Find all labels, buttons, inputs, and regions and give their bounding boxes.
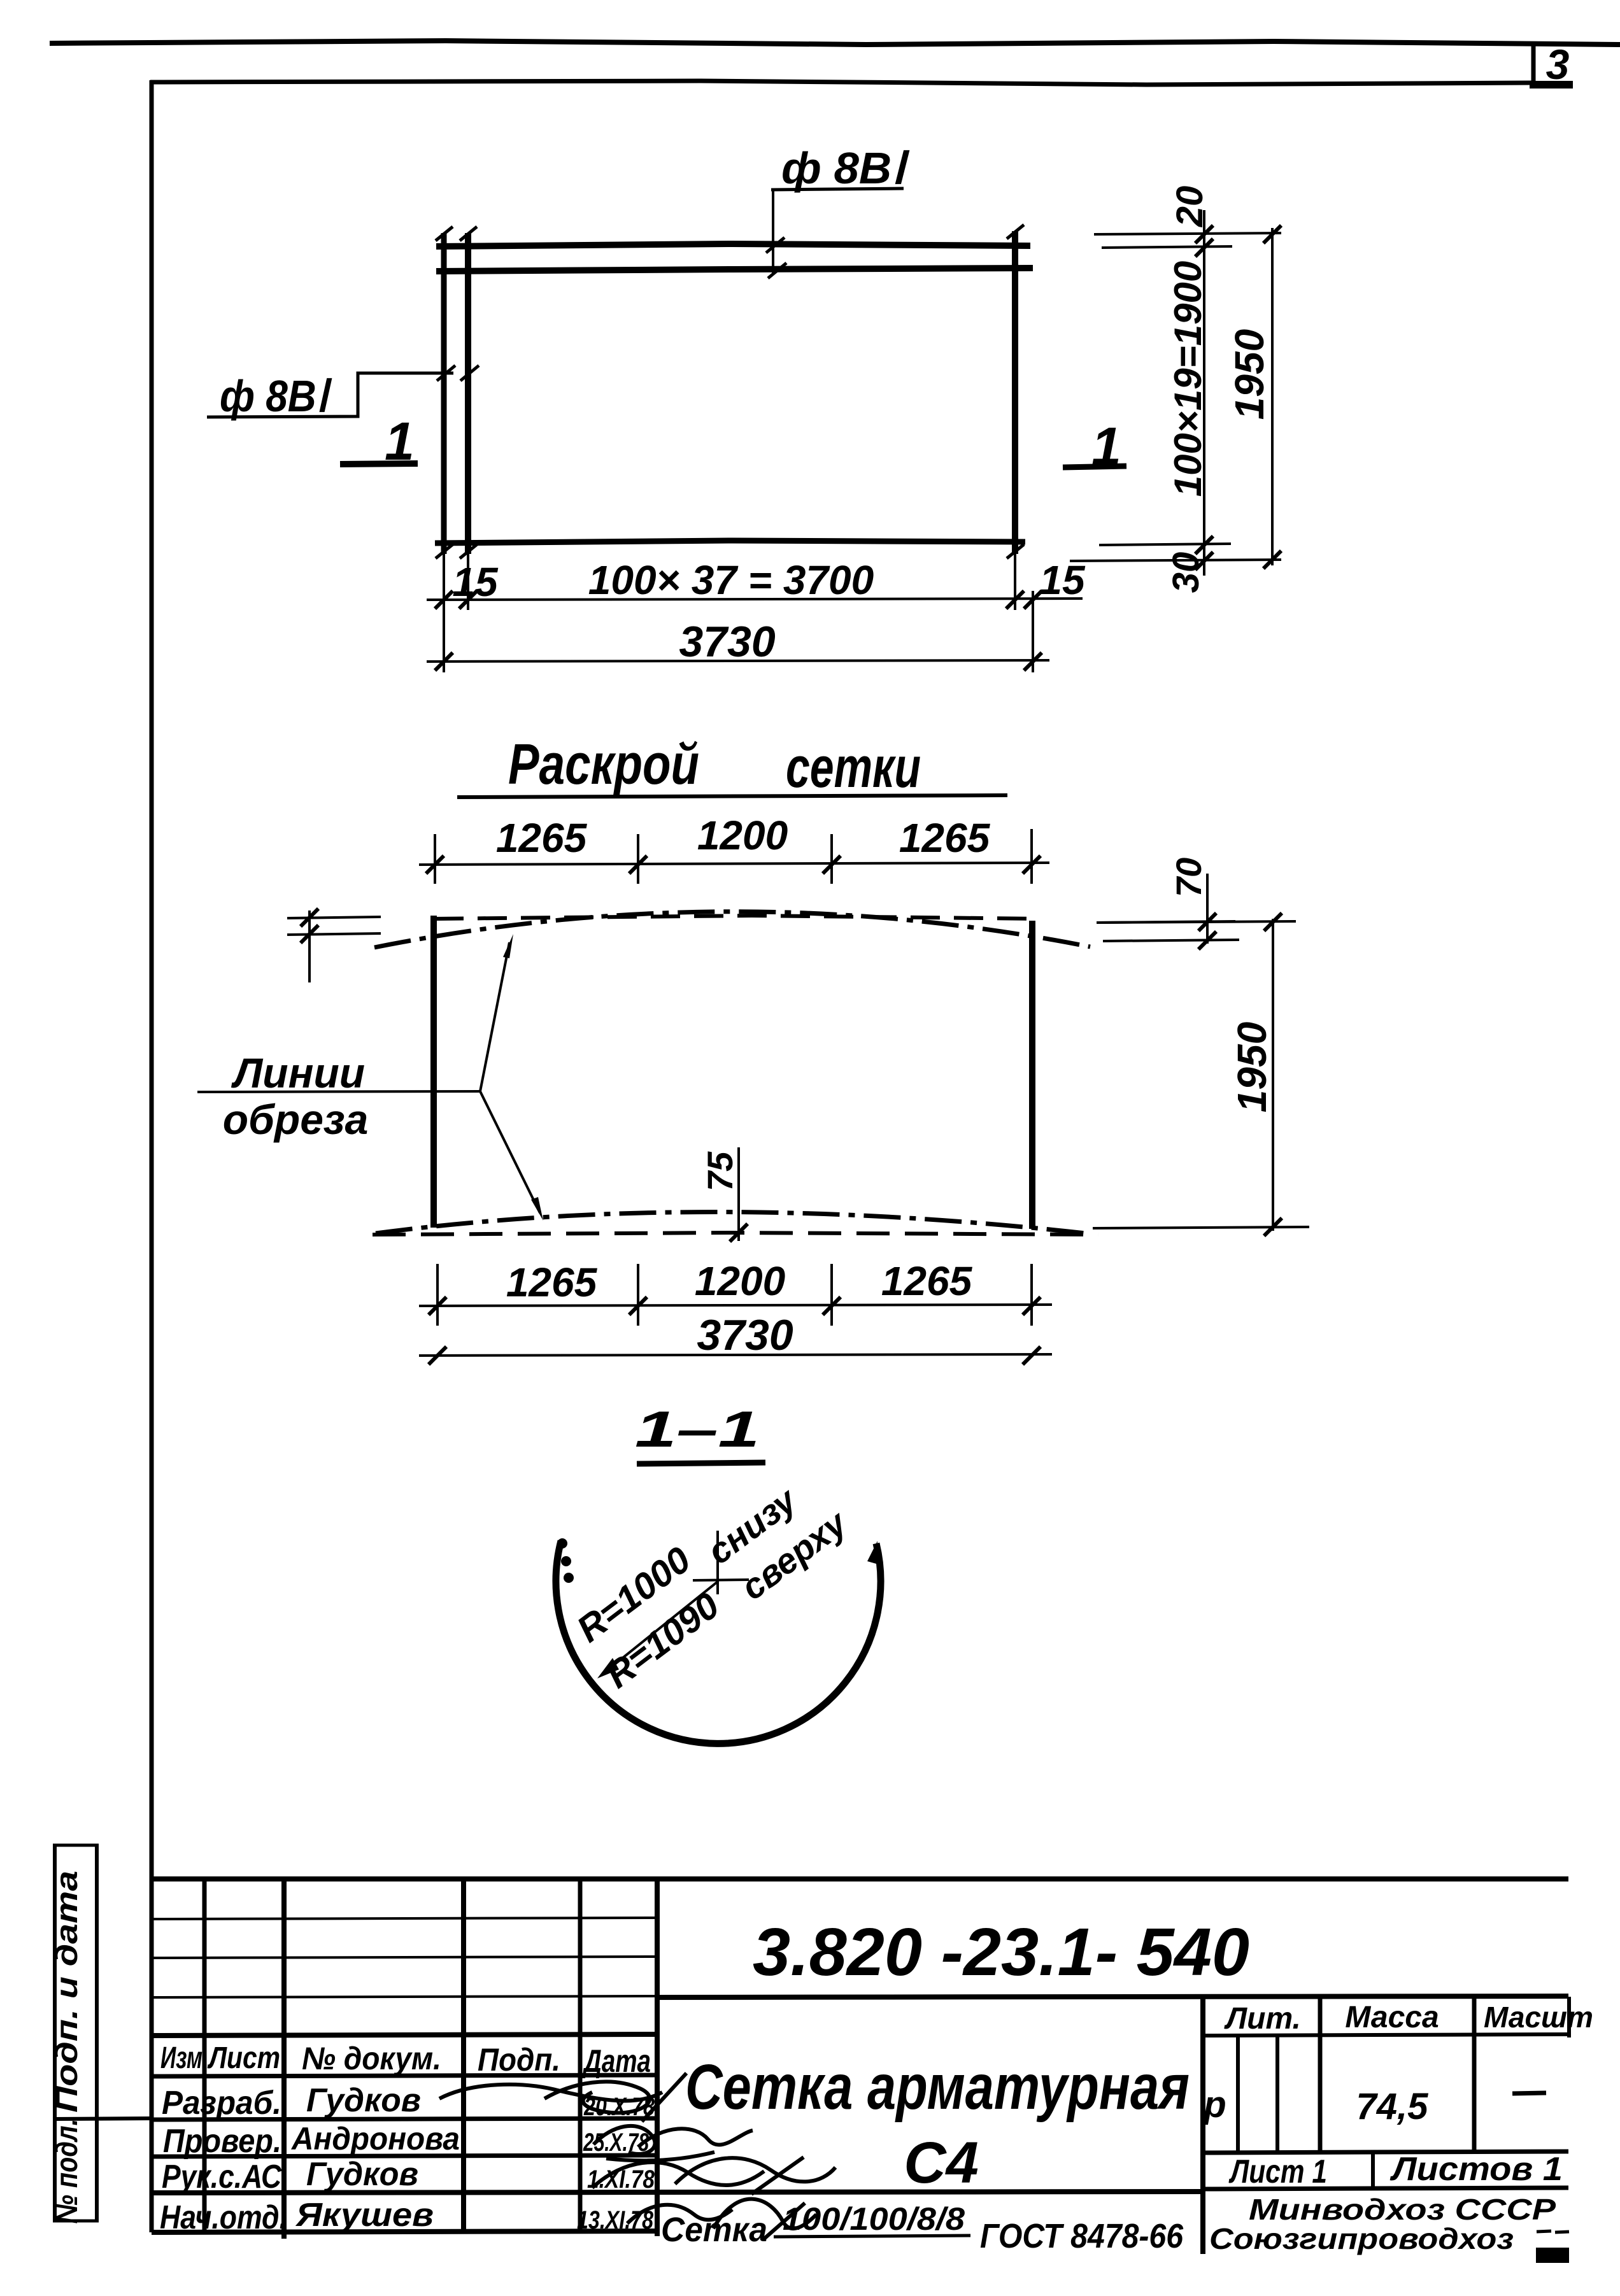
svg-text:70: 70 [1169,858,1209,897]
table column line Lit/Massa [1318,1997,1323,2153]
top cut line dash-dot [374,912,1090,947]
svg-text:3.820 -23.1- 540: 3.820 -23.1- 540 [753,1915,1249,1990]
bottom dimension extension lines [444,554,1033,672]
top dimension extension lines [435,829,1032,884]
frame left line [150,80,154,2232]
reserve row line 3 [152,1996,657,1997]
svg-text:Лист: Лист [207,2041,280,2075]
bottom dimension extension lines [437,1264,1032,1326]
svg-text:Минводхоз СССР: Минводхоз СССР [1249,2193,1556,2226]
List/Listov divider [1371,2153,1375,2189]
dimension line 1950 [1226,225,1281,569]
svg-text:100×19=1900: 100×19=1900 [1167,261,1209,497]
svg-text:Союзгипроводхоз: Союзгипроводхоз [1209,2222,1514,2255]
right dimension extension lines [1070,233,1281,561]
svg-text:Масса: Масса [1345,2001,1439,2034]
svg-text:Линии: Линии [231,1049,365,1096]
svg-text:Нач.отд.: Нач.отд. [160,2199,287,2236]
section mark 1 left [340,411,418,471]
signature ruk [592,2157,835,2194]
dim 1950 right [1093,913,1309,1236]
svg-text:1950: 1950 [1229,1022,1275,1112]
svg-text:Листов 1: Листов 1 [1389,2151,1563,2188]
title Raskroy setki [457,733,1007,800]
table top line [152,1876,1568,1881]
svg-text:ГОСТ 8478-66: ГОСТ 8478-66 [980,2217,1184,2255]
svg-text:75: 75 [700,1151,740,1191]
lit massa massh headers [1224,2001,1593,2036]
header row texts [160,2041,651,2079]
row nach otd [160,2197,654,2236]
svg-text:С4: С4 [904,2130,979,2195]
reserve row line 1 [152,1918,657,1919]
List row bottom line [1203,2188,1568,2189]
svg-text:Гудков: Гудков [306,2082,421,2119]
razrab row bottom line [152,2118,657,2120]
svg-text:100× 37 = 3700: 100× 37 = 3700 [588,557,874,603]
svg-text:15: 15 [1039,557,1086,603]
table column line Data/name cell [655,1879,660,2236]
section mark 1 right [1063,416,1126,476]
top dimension line 1265 1200 1265 [419,812,1049,874]
center mark [693,1531,749,1594]
svg-text:Якушев: Якушев [295,2197,434,2234]
row prover [163,2121,650,2160]
svg-text:Андронова: Андронова [290,2121,460,2157]
signature prover [593,2126,753,2160]
dimension line 100x19=1900 [1165,186,1213,593]
title 1-1 [635,1401,765,1464]
svg-text:3730: 3730 [679,618,775,666]
bottom dimension line 3730 [419,1311,1052,1364]
TITLE BLOCK [50,1845,1593,2263]
radius line with arrow [597,1582,718,1678]
svg-text:3: 3 [1546,41,1570,88]
svg-text:1265: 1265 [506,1259,598,1305]
side box Podp i data [50,1845,153,2224]
svg-text:Провер.: Провер. [163,2123,281,2160]
MIDDLE DRAWING: mesh cutting layout [197,733,1309,1364]
fraction line [774,2236,970,2237]
bottom dimension line 1265 1200 1265 [419,1258,1052,1315]
svg-text:р: р [1202,2084,1226,2125]
arc right end mark [867,1541,877,1564]
svg-text:74,5: 74,5 [1356,2086,1429,2127]
sheet number box [1530,45,1573,87]
Lit value row bottom line [1203,2151,1568,2153]
wire top 2 [436,268,1033,271]
svg-text:1200: 1200 [697,812,788,858]
svg-text:Изм: Изм [160,2041,202,2075]
paper top edge line [50,41,1620,45]
TOP DRAWING: mesh plan [207,143,1281,672]
arc left end marks [557,1538,574,1583]
sheet right edge [1029,921,1035,1229]
arc of mesh section [556,1541,881,1743]
table column line Massa/Massh [1472,1997,1477,2150]
svg-text:30: 30 [1165,552,1207,593]
dimension line 3700 [427,557,1086,609]
small dashes [1537,2231,1551,2232]
wire left edge a [441,233,447,554]
svg-text:1950: 1950 [1226,329,1272,420]
svg-text:Рук.с.АС: Рук.с.АС [162,2158,282,2195]
svg-text:Сетка арматурная: Сетка арматурная [685,2052,1190,2123]
header row top line [152,2034,657,2036]
doc number cell bottom line [657,1996,1568,1997]
svg-text:1265: 1265 [496,815,588,861]
SECTION 1-1 [556,1401,881,1743]
left edge offset dimension [287,909,381,982]
bottom cut line dash-dot [376,1212,1086,1234]
table column line name cell/Lit [1200,1997,1205,2254]
wire end ticks [436,225,1024,558]
label f8BI left [207,365,479,421]
table bottom line [152,2231,657,2232]
dim 70 right [1097,858,1239,949]
svg-text:Подп. и дата: Подп. и дата [50,1871,84,2113]
svg-text:Лист 1: Лист 1 [1228,2153,1327,2190]
list row [1228,2151,1563,2190]
Lit sub-column line 1 [1236,2036,1240,2153]
bottom edge dashed line [373,1233,1098,1235]
sheet left edge [430,916,437,1228]
svg-text:Раскрой: Раскрой [508,733,699,797]
row razrab [162,2082,655,2122]
svg-text:Масшт: Масшт [1484,2001,1593,2034]
table column line Izm/List [202,1879,207,2232]
ruk row bottom line [152,2192,1203,2193]
wire right edge [1012,231,1018,554]
row ruk [162,2156,655,2195]
wire top 1 [436,244,1030,246]
label linii obreza [197,934,543,1221]
svg-text:20: 20 [1169,186,1211,228]
label f8BI top [766,143,909,278]
table column line Podp/Data [578,1879,583,2232]
svg-text:обреза: обреза [223,1096,369,1143]
svg-text:1265: 1265 [881,1258,973,1304]
table column line N.dokum/Podp [461,1879,466,2232]
corner black mark [1536,2248,1569,2263]
dim 75 middle [700,1147,748,1242]
prover row bottom line [152,2155,657,2157]
dimension line 3730 [427,618,1049,670]
Lit header bottom line [1203,2034,1568,2036]
reserve row line 2 [152,1957,657,1958]
svg-text:3730: 3730 [697,1311,793,1359]
svg-text:сетки: сетки [786,736,921,800]
wire bottom [435,541,1025,543]
setka gost line [661,2201,1184,2255]
svg-text:Дата: Дата [582,2043,651,2079]
Massh right edge [1567,1997,1571,2037]
svg-text:Гудков: Гудков [306,2156,418,2193]
svg-text:15: 15 [452,559,499,605]
svg-text:1200: 1200 [695,1258,785,1304]
svg-text:1–1: 1–1 [635,1401,760,1457]
svg-text:ф 8BⅠ: ф 8BⅠ [781,143,909,193]
header row bottom line [152,2075,657,2076]
org name [1209,2193,1556,2255]
signature razrab [439,2073,686,2122]
table column line List/N.dokum [281,1879,287,2239]
top edge dashed line [434,916,1039,919]
svg-text:Лит.: Лит. [1224,2002,1301,2036]
signature nach otd [627,2199,816,2239]
svg-text:ф 8BⅠ: ф 8BⅠ [220,371,332,421]
svg-text:Подп.: Подп. [478,2042,560,2078]
frame top line [150,81,1532,85]
Lit sub-column line 2 [1275,2036,1279,2153]
massh dash [1512,2093,1546,2094]
svg-text:Разраб.: Разраб. [162,2085,281,2122]
svg-text:Сетка: Сетка [661,2211,767,2249]
wire left edge b [465,233,471,554]
svg-text:100/100/8/8: 100/100/8/8 [783,2201,965,2237]
svg-text:№ подл.: № подл. [50,2119,84,2224]
svg-text:№ докум.: № докум. [302,2041,441,2076]
svg-text:1265: 1265 [899,815,991,861]
